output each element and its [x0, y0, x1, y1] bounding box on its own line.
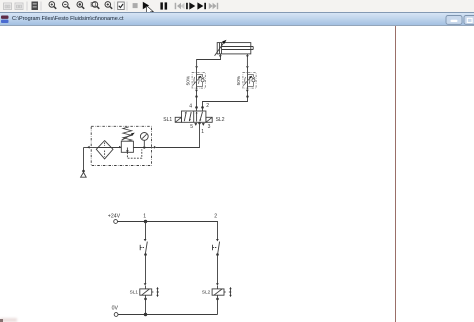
zoom icon 1 (zoom window) — [49, 2, 56, 9]
filter diamond — [96, 141, 113, 159]
gauge — [140, 133, 148, 141]
dark parts-list icon — [32, 2, 39, 11]
svg-text:50%: 50% — [236, 75, 242, 85]
svg-text:1: 1 — [143, 213, 146, 219]
right solenoid — [206, 117, 212, 122]
svg-text:2: 2 — [206, 103, 209, 109]
wire port 1 to supply — [156, 123, 200, 148]
top rail — [118, 222, 218, 240]
page boundary line — [395, 26, 396, 322]
left solenoid — [175, 117, 181, 122]
svg-text:SL1: SL1 — [163, 117, 172, 123]
left position arrows — [184, 112, 186, 121]
svg-text:0V: 0V — [112, 306, 119, 312]
zoom icon 2 (zoom out) — [63, 2, 70, 9]
svg-text:+24V: +24V — [108, 213, 121, 219]
svg-text:3: 3 — [208, 124, 211, 130]
node at service unit outlet — [154, 146, 156, 149]
titlebar — [0, 12, 474, 26]
zoom icon 4 (zoom page) — [91, 2, 99, 9]
cylinder 1A (double acting, adjustable cushioning) — [215, 40, 254, 58]
svg-text:SL1: SL1 — [130, 289, 139, 294]
solenoid coil SL1 — [130, 283, 159, 300]
svg-text:4: 4 — [189, 104, 192, 110]
separator — [40, 2, 42, 11]
node at FC2 top — [246, 66, 249, 68]
separator — [113, 2, 115, 11]
grayed window icon 1 — [4, 3, 12, 10]
wire service unit inlet to source — [84, 147, 97, 149]
fluidsim doc icon — [1, 16, 9, 24]
branch 2 switch S2 — [213, 239, 220, 256]
check-drawing icon — [118, 2, 125, 10]
fast forward (disabled) — [209, 3, 218, 9]
zoom icon 3 (zoom fit) — [77, 2, 84, 9]
node at FC1 top — [195, 66, 198, 68]
exhaust 3 — [202, 123, 205, 126]
svg-text:SL2: SL2 — [202, 289, 211, 294]
valve labels — [163, 103, 224, 135]
svg-text:2: 2 — [214, 213, 217, 219]
branch 1 wire — [145, 222, 147, 240]
toolbar — [0, 0, 474, 12]
bottom rail — [118, 314, 217, 316]
separator — [126, 2, 128, 11]
solenoid coil SL2 — [202, 283, 232, 300]
stop button (disabled) — [133, 3, 138, 8]
svg-text:50%: 50% — [185, 75, 191, 85]
svg-text:1: 1 — [201, 129, 204, 135]
through line — [96, 147, 121, 149]
zoom icon 5 (zoom in) — [105, 2, 112, 9]
wire FC2 to valve port 2 — [203, 91, 248, 107]
svg-text:5: 5 — [190, 124, 193, 130]
maximize button — [464, 16, 474, 25]
mouse cursor — [146, 5, 153, 15]
pause button — [160, 2, 163, 9]
node at FC2 bottom — [246, 90, 249, 92]
wire cylinder-left-port to FC1 — [197, 57, 221, 67]
compressed air source — [82, 170, 85, 173]
svg-text:SL2: SL2 — [216, 117, 225, 123]
service unit (filter+regulator+gauge) — [91, 126, 151, 165]
0V terminal — [114, 313, 118, 317]
regulator — [121, 141, 133, 152]
flow control valve FC1 (50%) — [192, 67, 205, 90]
separator — [26, 2, 28, 11]
play button — [143, 2, 149, 9]
single step — [186, 2, 195, 9]
grayed window icon 2 — [15, 3, 23, 10]
exhaust 5 — [194, 123, 197, 126]
valve V1 5/2-way double solenoid — [175, 111, 212, 126]
node at FC1 bottom — [195, 90, 198, 92]
wire FC1 to valve port 4 — [196, 91, 198, 107]
switch S1 (make pushbutton) — [140, 239, 147, 256]
regulator pilot dashed — [127, 149, 141, 158]
wire cylinder-right-port to FC2 — [246, 57, 248, 67]
reset-to-start (disabled) — [175, 3, 185, 9]
flow control valve FC2 (50%) — [243, 67, 256, 90]
node port 4 — [195, 106, 198, 109]
node port 2 — [201, 106, 204, 109]
+24V terminal — [114, 220, 118, 224]
minimize button — [446, 16, 462, 25]
sim to state change — [197, 2, 206, 9]
right position arrows — [196, 112, 198, 121]
